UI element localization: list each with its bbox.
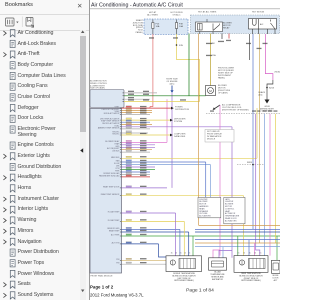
svg-text:15: 15	[184, 253, 186, 255]
svg-text:15: 15	[180, 253, 182, 255]
svg-text:15: 15	[171, 253, 173, 255]
wire YE from fuse F38	[177, 34, 200, 102]
mode door servo box	[272, 260, 281, 273]
wire BL elbow row MED	[210, 165, 212, 198]
fuse F38	[175, 23, 183, 29]
wire VT off-page vertical	[171, 93, 173, 188]
wire VT HVAC pin row 14	[122, 146, 156, 148]
svg-text:PANEL): PANEL)	[136, 31, 144, 34]
splice S15	[176, 44, 178, 46]
svg-text:BLACK: BLACK	[259, 91, 266, 94]
svg-text:ACT RTN: ACT RTN	[112, 241, 120, 244]
svg-text:15: 15	[259, 253, 261, 255]
note box	[205, 130, 234, 143]
wire WH box A row1	[124, 92, 157, 94]
wire PK drop to box3	[253, 243, 255, 256]
svg-text:FRONT HVAC MODULE: FRONT HVAC MODULE	[91, 274, 114, 277]
wire YE HVAC pin row 26	[122, 195, 244, 197]
wire BU run feed long	[252, 34, 254, 229]
svg-text:IN CAR TEMP: IN CAR TEMP	[108, 211, 120, 214]
A/C compressor connector arrow	[214, 105, 220, 109]
svg-text:PANEL): PANEL)	[218, 77, 225, 80]
svg-text:15: 15	[188, 253, 190, 255]
wire BU HVAC pin row 29	[122, 228, 180, 230]
wire VT HVAC pin row 25	[122, 187, 168, 189]
svg-text:OR ACC: OR ACC	[173, 13, 181, 16]
splice S213	[266, 87, 268, 89]
wire OG HVAC pin row 3	[122, 111, 153, 113]
panel close button	[77, 2, 82, 10]
wire BK ground elbow	[267, 80, 273, 100]
wire DB HVAC pin row 32	[122, 243, 159, 245]
wire PK A/C clutch to bottom	[219, 105, 221, 256]
splice S209	[252, 164, 254, 166]
wire MG hot in run	[265, 34, 273, 80]
wire PK HVAC pin row 12	[122, 141, 168, 143]
wire YE HVAC pin row 17	[122, 157, 258, 159]
svg-text:HOT AT ALL TIMES: HOT AT ALL TIMES	[198, 10, 217, 13]
connector legend box C2	[224, 197, 245, 223]
svg-text:15: 15	[243, 253, 245, 255]
wire VT jog to box2	[219, 251, 232, 258]
wire VT drop to box1	[175, 213, 177, 256]
fuse pin stubs	[153, 20, 177, 35]
wire OG bus 2	[195, 242, 280, 244]
wire BL drop to box2	[222, 247, 224, 258]
svg-text:ALL TIMES: ALL TIMES	[147, 13, 158, 16]
svg-text:SYSTEM: SYSTEM	[174, 121, 183, 123]
wire BU elbow row LIN	[205, 162, 207, 197]
smart junction box SJB	[144, 19, 188, 35]
wire DR HVAC pin row 1	[122, 107, 172, 109]
svg-text:BK: BK	[212, 43, 215, 45]
wire BU bus 2	[195, 239, 280, 241]
wire PK in-car temp	[269, 114, 271, 256]
svg-text:ACT PWR: ACT PWR	[111, 234, 120, 237]
svg-text:INSTRUMENT PANEL): INSTRUMENT PANEL)	[241, 279, 261, 282]
svg-text:MODULE: MODULE	[207, 138, 216, 140]
svg-text:LIN BUS: LIN BUS	[112, 151, 120, 153]
wire BL sensor sig	[264, 114, 266, 256]
wire YE drop to box1	[183, 221, 185, 255]
wire GY HVAC pin row 4	[122, 114, 151, 116]
wire GY HVAC pin row 16	[122, 151, 151, 153]
wire BU HVAC pin row 6	[122, 121, 151, 123]
svg-text:AMBIENT TEMP SENSOR: AMBIENT TEMP SENSOR	[98, 126, 120, 129]
wire VT HVAC pin row 20	[122, 166, 156, 168]
wire GY HVAC pin row 34	[122, 263, 167, 265]
svg-text:15: 15	[237, 253, 239, 255]
wire TN HVAC pin row 33	[122, 259, 167, 261]
svg-text:Page 1 of 2: Page 1 of 2	[90, 284, 114, 289]
svg-text:INSTRUMENT PANEL): INSTRUMENT PANEL)	[174, 279, 194, 282]
ground G103	[265, 100, 270, 104]
wire PK pressure switch vertical	[166, 99, 168, 142]
svg-text:MED BUS: MED BUS	[111, 157, 120, 159]
wire TN K2 long	[258, 34, 260, 243]
fuse F15	[152, 23, 160, 29]
svg-text:MODE ACTUATOR: MODE ACTUATOR	[104, 112, 120, 115]
svg-text:OF DASH): OF DASH)	[218, 92, 228, 95]
wire VT HVAC pin row 13	[122, 144, 156, 146]
svg-text:Air Conditioning - Automatic A: Air Conditioning - Automatic A/C Circuit	[91, 2, 183, 8]
wire DB HVAC pin row 30	[122, 231, 189, 233]
relay K1 blower motor relay	[196, 19, 223, 34]
svg-text:REAR TEMP: REAR TEMP	[109, 230, 120, 233]
title underline	[90, 8, 280, 10]
svg-text:S15: S15	[179, 45, 184, 47]
wire BK K2 pin stub	[249, 34, 251, 60]
svg-text:2012 Ford Mustang V6-3.7L: 2012 Ford Mustang V6-3.7L	[90, 293, 144, 298]
left temp blend actuator box	[166, 256, 202, 272]
wire RD stub	[228, 34, 230, 39]
right temp actuator box	[234, 256, 268, 273]
wire GY HVAC pin row 10	[122, 132, 149, 134]
dashed connector line C2	[237, 164, 264, 166]
wire OG long feed	[198, 34, 200, 60]
svg-text:Page 1 of 84: Page 1 of 84	[186, 288, 214, 294]
svg-text:S209: S209	[247, 162, 253, 164]
wire BU drop to box3	[248, 240, 250, 256]
wire VT HVAC pin row 27	[122, 212, 176, 214]
wire DB drop to box1	[188, 232, 190, 256]
svg-text:(A/C): (A/C)	[170, 82, 175, 85]
wire YE sensor feed	[243, 196, 245, 256]
dashed connector line C290	[206, 113, 280, 115]
bookmarks side panel	[0, 0, 89, 300]
relay K2 A/C clutch relay	[249, 19, 277, 35]
blower motor M1	[206, 86, 216, 96]
wire OG HVAC pin row 7	[122, 124, 153, 126]
wire RD from fuse F15	[150, 34, 153, 107]
wire GN HVAC pin row 21	[122, 168, 156, 170]
wire BL HVAC pin row 19	[122, 164, 211, 166]
svg-text:10A: 10A	[156, 25, 160, 28]
wire YE HVAC pin row 28	[122, 220, 185, 222]
wire BU drop to box1	[179, 229, 181, 255]
wire DB bus	[195, 231, 280, 233]
svg-text:S213: S213	[269, 88, 275, 90]
svg-text:DISTRIBUTION: DISTRIBUTION	[175, 109, 190, 111]
svg-text:(RIGHT FRONT OF ENGINE): (RIGHT FRONT OF ENGINE)	[222, 109, 249, 111]
wire BK stub K1 pin	[221, 34, 223, 40]
wire VT HVAC pin row 8	[122, 126, 233, 128]
wire YE sunload	[274, 114, 276, 243]
wire YE HVAC pin row 11	[122, 134, 171, 136]
wire PK jog to box2	[213, 250, 220, 258]
svg-text:10A: 10A	[179, 25, 183, 28]
panel border	[89, 0, 90, 300]
wire BU HVAC pin row 22	[122, 171, 151, 173]
wire GN to servo	[276, 236, 278, 260]
aspirator box	[209, 258, 227, 270]
wire DR HVAC pin row 24	[122, 176, 151, 178]
wire GN drop to box1	[192, 236, 194, 256]
wire VT aspirator	[256, 114, 260, 256]
wire YE long row elbow	[256, 108, 258, 158]
wire OG HVAC pin row 15	[122, 149, 153, 151]
svg-text:15: 15	[175, 253, 177, 255]
svg-text:IN CAR TEMP: IN CAR TEMP	[108, 219, 120, 222]
svg-text:A/C: A/C	[260, 23, 264, 26]
wire GY HVAC pin row 23	[122, 173, 151, 175]
wire YE HVAC pin row 5	[122, 119, 171, 121]
svg-text:RECIRC: RECIRC	[112, 134, 120, 136]
svg-text:PASSENGER SUNLOAD: PASSENGER SUNLOAD	[99, 174, 120, 177]
wire DB jog to box1	[159, 244, 167, 257]
wire VT mode door	[231, 127, 233, 258]
wire BL bus 3	[195, 246, 280, 248]
wire YE relay to motor	[210, 34, 212, 86]
connector legend box C1	[198, 197, 221, 217]
svg-text:(RUN): (RUN)	[275, 71, 281, 73]
svg-text:RELAY: RELAY	[223, 26, 230, 29]
wire GY HVAC pin row 9	[122, 128, 151, 130]
wire GN box A row2 (to blower motor)	[124, 95, 206, 97]
svg-text:15: 15	[254, 253, 256, 255]
svg-text:DATA LINES: DATA LINES	[174, 135, 186, 138]
panel header title	[5, 2, 33, 8]
engine junction box band	[191, 15, 280, 34]
HVAC control module	[90, 109, 122, 274]
wire BU HVAC pin row 18	[122, 161, 206, 163]
wire OG HVAC pin row 2	[122, 109, 153, 111]
svg-text:ACTUATORS: ACTUATORS	[199, 215, 211, 218]
blower speed control module	[90, 90, 124, 108]
wire GN drop to box3	[237, 236, 239, 256]
svg-text:ACTUATORS: ACTUATORS	[225, 219, 237, 222]
svg-text:ASPIRATOR: ASPIRATOR	[212, 278, 223, 281]
svg-text:(4X): (4X)	[259, 95, 263, 97]
svg-text:REAR TEMP DOOR: REAR TEMP DOOR	[103, 185, 120, 188]
svg-text:REAR TEMP SENSOR: REAR TEMP SENSOR	[101, 193, 120, 196]
wire YE box A row4 (to S15 drop)	[124, 101, 200, 103]
svg-text:15A: 15A	[212, 54, 216, 57]
wire OG bus	[199, 224, 280, 226]
wire GN from relay K1	[188, 34, 190, 96]
svg-text:15: 15	[249, 253, 251, 255]
wire OG feed down right	[198, 60, 200, 226]
wire BU bus	[195, 228, 280, 230]
wire GN HVAC pin row 31	[122, 235, 281, 237]
svg-text:HOT IN RUN: HOT IN RUN	[252, 11, 265, 13]
wire GY box A row3	[124, 98, 150, 100]
